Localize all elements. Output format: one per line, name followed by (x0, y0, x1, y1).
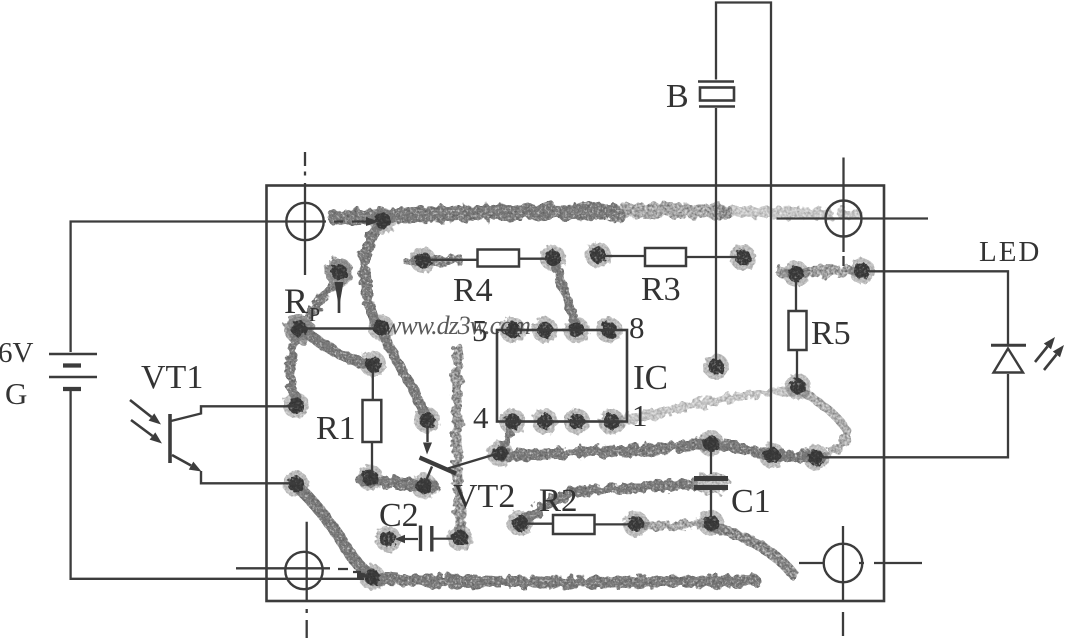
pad IC pin1 (599, 409, 625, 435)
resistor R3 (603, 255, 645, 257)
svg-text:R3: R3 (641, 271, 681, 308)
trace top band sparse right (720, 212, 856, 214)
svg-text:R5: R5 (811, 315, 851, 352)
svg-text:1: 1 (632, 398, 648, 433)
pad top-left dashline target (370, 208, 396, 234)
svg-text:B: B (666, 78, 689, 115)
buzzer B loop wires (716, 3, 771, 451)
resistor R1 (372, 369, 374, 400)
buzzer B symbol (698, 80, 734, 83)
pad R4 left (410, 247, 436, 273)
pad R1 top (360, 351, 386, 377)
centerline BR horizontal (799, 562, 922, 564)
svg-text:VT2: VT2 (453, 478, 515, 515)
grey arrow into R5 top pad (797, 270, 812, 272)
PCB board outline (267, 186, 885, 602)
mounting hole top-right (826, 201, 862, 237)
pad R3 left (585, 242, 611, 268)
svg-text:VT1: VT1 (141, 359, 203, 396)
pad B line end (703, 354, 729, 380)
trace bottom band (372, 579, 755, 582)
arrowhead into battery bottom pad (357, 571, 369, 580)
arrowhead into top-left pad (366, 217, 379, 226)
trace R5 top band (781, 271, 855, 273)
capacitor C1 plates (694, 476, 728, 481)
pad battery bottom wire (359, 564, 385, 590)
pad R2 left (507, 510, 533, 536)
pads group (283, 208, 875, 590)
trace top-left vertical drop (364, 224, 381, 327)
centerline TR vertical (842, 158, 844, 267)
svg-text:5: 5 (472, 313, 488, 348)
LED symbol (991, 344, 1026, 347)
LED light arrow 2 (1044, 355, 1057, 371)
trace C1 smudge (692, 472, 730, 494)
pad R3 right (730, 245, 756, 271)
svg-text:LED: LED (979, 236, 1041, 268)
pad IC pin5 (500, 317, 526, 343)
phototransistor VT1 (168, 414, 172, 463)
resistor R5 (795, 279, 797, 311)
C2 right lead (434, 538, 457, 540)
pad IC pin3 (532, 409, 558, 435)
trace R4 right to IC pin7 (555, 263, 576, 326)
pad Rp wire right (368, 315, 394, 341)
svg-text:R4: R4 (453, 272, 493, 309)
svg-text:4: 4 (473, 400, 489, 435)
pad R5 bottom (785, 374, 811, 400)
pad VT2 base (414, 407, 440, 433)
LED wire loop (869, 271, 1008, 344)
trace R5 bottom curl (799, 390, 848, 454)
pad IC pin7 (564, 317, 590, 343)
trace R2 right link (638, 524, 702, 526)
trace top band mid (600, 210, 726, 212)
pad IC pin4 (500, 409, 526, 435)
centerline TR horizontal (777, 217, 929, 219)
svg-text:R: R (284, 281, 308, 321)
pad IC pin2 (564, 409, 590, 435)
trace blob on top band (610, 208, 626, 224)
wire Rp horizontal (302, 327, 377, 329)
trace R1 bottom link (362, 480, 434, 487)
labels group (0, 78, 1041, 534)
trace Rp to VT1 collector pad (290, 332, 299, 402)
trace IC pin1 to R5 bottom (615, 389, 795, 423)
svg-text:G: G (5, 376, 27, 411)
pad R4 right (540, 245, 566, 271)
capacitor C2 plates (419, 526, 422, 552)
trimmer Rp wiper stem (338, 283, 341, 313)
pad VT1 collector (283, 393, 309, 419)
svg-text:www.dz3w.com: www.dz3w.com (384, 311, 530, 340)
trace C1 bottom curl (711, 526, 793, 574)
LED light arrow 1 (1035, 347, 1048, 363)
pad R1 bottom (357, 465, 383, 491)
trace R2 left to C1 plates (522, 485, 693, 523)
trace IC pin4 link (504, 425, 511, 449)
pad LED return (803, 445, 829, 471)
svg-text:R1: R1 (316, 410, 356, 447)
pad Rp wire left (286, 316, 312, 342)
svg-text:8: 8 (629, 310, 645, 345)
pad IC pin8 (596, 317, 622, 343)
resistor R4 (428, 259, 478, 261)
IC outline (497, 330, 627, 422)
trace Rp blob lower (284, 314, 314, 344)
centerline BL vertical (306, 522, 308, 638)
centerline TL dashes to pad (334, 220, 371, 222)
svg-text:P: P (309, 304, 320, 326)
pad C2 right (447, 525, 473, 551)
pad R5 top lead (783, 261, 809, 287)
svg-text:R2: R2 (539, 483, 578, 519)
centerline BL horizontal (236, 568, 361, 572)
centerline BR vertical (842, 526, 844, 636)
trace Rp blob left (325, 258, 353, 286)
pad LED top wire (849, 258, 875, 284)
pad C1 bottom (698, 510, 724, 536)
VT1 light arrow 2 (131, 420, 153, 436)
pad C2 left (375, 526, 401, 552)
copper traces group (284, 208, 856, 582)
trace VT1 emitter diagonal (298, 487, 371, 575)
resistor R2 (525, 523, 553, 525)
trace Rp to R1 top pad (304, 331, 372, 365)
svg-text:C2: C2 (379, 497, 419, 534)
wire battery negative bottom (71, 391, 364, 579)
transistor VT2 (426, 426, 428, 442)
mounting hole top-left (286, 203, 323, 240)
trace Rp link (303, 276, 338, 324)
trace top band (336, 211, 612, 218)
svg-text:C1: C1 (731, 483, 771, 520)
trace mid band to C1 and right pads (503, 444, 820, 458)
pad Rp top (326, 259, 352, 285)
mounting hole bottom-right (824, 544, 863, 583)
VT1 light arrow 1 (130, 400, 152, 417)
trace vertical band to C2 (457, 348, 460, 534)
pad right vertical B (759, 443, 785, 469)
svg-text:IC: IC (633, 358, 668, 397)
pad R2 right (623, 511, 649, 537)
centerline TL vertical (304, 152, 306, 275)
C2 left lead arrow (402, 538, 418, 540)
trace R4 left tail (408, 260, 460, 262)
pad VT2 collector (487, 441, 513, 467)
pad VT2 emitter (411, 473, 437, 499)
battery GB plates (49, 353, 97, 356)
trace Rp to VT2 diagonal (382, 332, 426, 416)
pad VT1 emitter (283, 471, 309, 497)
pad C1 top (698, 431, 724, 457)
svg-text:6V: 6V (0, 337, 34, 369)
mounting hole bottom-left (285, 552, 322, 589)
pad IC pin6 (532, 317, 558, 343)
capacitor C1 leads (710, 448, 712, 517)
wire battery positive top (71, 222, 326, 353)
